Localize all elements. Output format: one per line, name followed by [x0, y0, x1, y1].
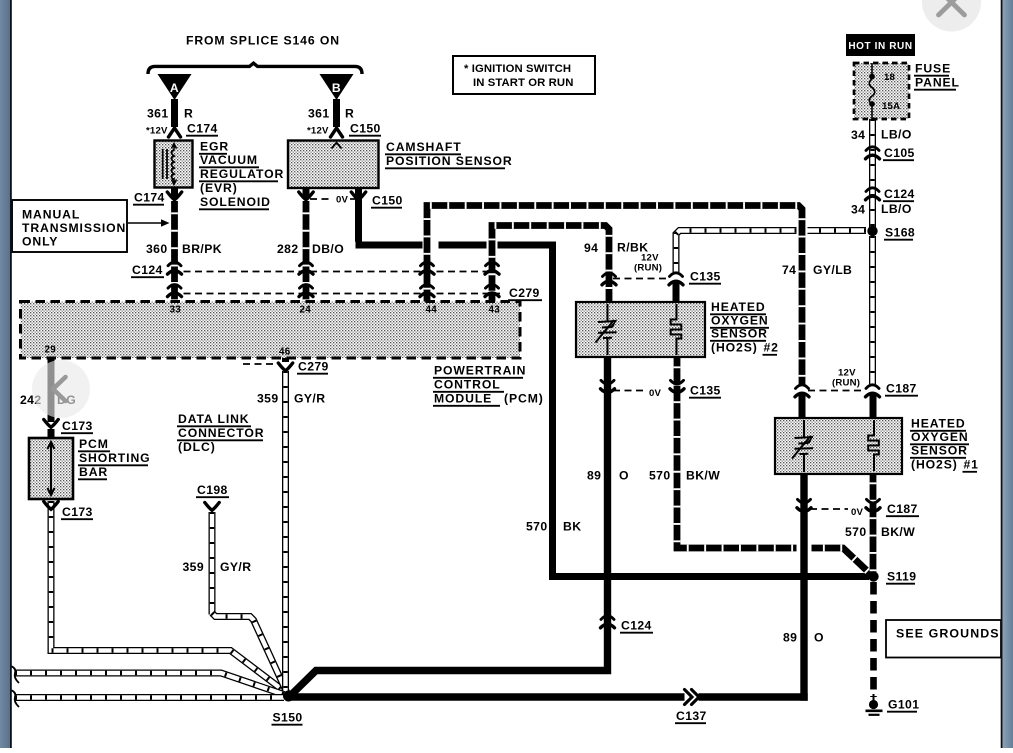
splice S119 — [868, 571, 878, 581]
HO2S2 heater symbol — [671, 304, 682, 355]
wire C150 connector line — [310, 198, 332, 200]
wire left wire lower to S150 — [15, 694, 284, 701]
svg-text:C174: C174 — [187, 122, 218, 136]
svg-text:570: 570 — [845, 525, 867, 539]
svg-text:MANUAL: MANUAL — [22, 208, 80, 222]
wire 34 LB/O fuse to C105 — [869, 119, 876, 228]
svg-text:C124: C124 — [132, 263, 163, 277]
svg-text:C124: C124 — [621, 619, 652, 633]
note box IGNITION SWITCH — [453, 56, 595, 94]
svg-text:(PCM): (PCM) — [504, 392, 544, 406]
svg-text:24: 24 — [300, 305, 312, 316]
header HOT IN RUN — [846, 34, 915, 56]
wire EVR bottom stub — [171, 185, 178, 199]
wire 89 O HO2S1 down — [800, 471, 807, 701]
svg-text:C174: C174 — [134, 191, 165, 205]
connector C198 — [205, 503, 219, 511]
svg-text:C279: C279 — [509, 286, 540, 300]
svg-text:(RUN): (RUN) — [634, 263, 662, 274]
svg-text:OXYGEN: OXYGEN — [911, 430, 969, 444]
connector C174 below EVR — [167, 192, 181, 200]
powertrain control module (PCM) box — [21, 302, 521, 359]
svg-text:POWERTRAIN: POWERTRAIN — [434, 364, 526, 378]
svg-text:R: R — [345, 107, 354, 121]
EGR vacuum regulator (EVR) solenoid box — [155, 141, 193, 188]
wire left wire upper to S150 — [15, 673, 284, 695]
connector C124 fuse column — [866, 188, 879, 192]
connector C150 left pin — [299, 192, 313, 200]
svg-text:GY/R: GY/R — [294, 392, 325, 406]
svg-text:BK/W: BK/W — [881, 525, 915, 539]
wire 282 DB/O camshaft to PCM pin 24 — [303, 201, 310, 303]
svg-text:C279: C279 — [298, 360, 329, 374]
back button — [32, 360, 90, 418]
wire C173 to shorting bar stub — [48, 429, 55, 440]
HO2S1 sensor element symbol — [792, 420, 813, 472]
wire 359 GY/R C279 to S150 — [282, 371, 289, 692]
svg-text:SENSOR: SENSOR — [711, 327, 768, 341]
svg-text:HEATED: HEATED — [911, 417, 966, 431]
svg-text:(HO2S): (HO2S) — [911, 458, 958, 472]
svg-text:C150: C150 — [350, 122, 381, 136]
connector connector pins at C279 line x=427 — [421, 285, 434, 289]
wire 570 BK/W HO2S2 to S119 seg2 — [812, 548, 871, 574]
svg-text:VACUUM: VACUUM — [200, 153, 258, 167]
connector C135 top left pin — [603, 273, 616, 277]
wire 570 BK horizontal seg1 — [356, 242, 423, 249]
wire C124 connector line — [172, 271, 497, 273]
svg-text:EGR: EGR — [200, 140, 229, 154]
svg-text:44: 44 — [426, 305, 438, 316]
svg-text:0V: 0V — [851, 507, 864, 518]
connector C135 bottom left pin — [601, 380, 614, 384]
svg-text:S150: S150 — [273, 711, 303, 725]
svg-text:HEATED: HEATED — [711, 300, 766, 314]
svg-text:GY/R: GY/R — [220, 560, 251, 574]
wire 242 DG PCM pin 29 to C173 — [48, 355, 55, 422]
svg-text:B: B — [332, 81, 341, 95]
svg-text:SENSOR: SENSOR — [911, 444, 968, 458]
wire 360 BR/PK EVR to PCM pin 33 — [171, 201, 178, 303]
svg-text:REGULATOR: REGULATOR — [200, 167, 284, 181]
wire 89 O HO2S2 to S150 — [291, 355, 608, 695]
svg-text:C150: C150 — [372, 194, 403, 208]
svg-text:570: 570 — [649, 469, 671, 483]
connector C173 below shorting bar — [44, 502, 58, 510]
wire 570 BK horizontal seg3 — [498, 242, 557, 249]
wire 361 R to camshaft sensor — [333, 99, 340, 127]
splice triangle A — [158, 74, 192, 100]
arrow to 360 BR/PK wire — [128, 222, 162, 224]
wire 74 GY/LB PCM pin 44 to HO2S1 — [427, 206, 802, 387]
connector C135 top right pin — [670, 273, 683, 277]
svg-text:SHORTING: SHORTING — [79, 451, 151, 465]
svg-text:18: 18 — [884, 72, 896, 83]
wire 89 O bottom horizontal seg2 — [289, 693, 685, 700]
svg-text:OXYGEN: OXYGEN — [711, 314, 769, 328]
svg-text:CAMSHAFT: CAMSHAFT — [386, 140, 462, 154]
EVR coil — [172, 150, 175, 180]
connector connector pins at C279 line x=492 — [486, 285, 499, 289]
svg-text:*12V: *12V — [146, 126, 168, 137]
heated oxygen sensor HO2S #1 box — [775, 418, 902, 474]
svg-text:282: 282 — [277, 242, 299, 256]
splice S168 — [867, 226, 877, 236]
connector C187 top right pin — [866, 385, 879, 389]
svg-text:ONLY: ONLY — [22, 235, 58, 249]
svg-text:33: 33 — [170, 305, 182, 316]
svg-text:IN START OR RUN: IN START OR RUN — [473, 77, 573, 89]
svg-text:89: 89 — [783, 631, 797, 645]
svg-text:PCM: PCM — [79, 437, 109, 451]
note box SEE GROUNDS — [886, 620, 1001, 658]
svg-text:CONTROL: CONTROL — [434, 378, 501, 392]
wire PCM pin 46 stub — [282, 355, 289, 362]
svg-text:570: 570 — [526, 520, 548, 534]
svg-text:0V: 0V — [336, 195, 349, 206]
wire 94 R/BK PCM pin 43 to HO2S2 — [492, 226, 609, 304]
svg-text:FROM SPLICE S146 ON: FROM SPLICE S146 ON — [186, 34, 340, 48]
svg-text:15A: 15A — [882, 101, 900, 112]
connector connector pins at C124 line x=174.5 — [168, 262, 181, 266]
connector C187 top left pin — [796, 385, 809, 389]
wire C279 connector line — [172, 293, 500, 295]
svg-text:74: 74 — [782, 263, 796, 277]
svg-text:(EVR): (EVR) — [200, 181, 238, 195]
svg-text:C135: C135 — [690, 270, 721, 284]
wire camshaft right pin 570 BK down — [355, 185, 362, 242]
svg-text:BK/W: BK/W — [686, 469, 720, 483]
splice bracket S146 — [148, 63, 362, 74]
svg-text:DB/O: DB/O — [312, 242, 344, 256]
svg-text:* IGNITION SWITCH: * IGNITION SWITCH — [464, 63, 571, 75]
connector C279 below PCM — [278, 363, 292, 371]
svg-text:89: 89 — [587, 469, 601, 483]
svg-text:BK: BK — [563, 520, 581, 534]
wire break squiggle lower — [11, 690, 20, 707]
svg-text:29: 29 — [45, 345, 57, 356]
camshaft position sensor box — [288, 141, 379, 189]
wire 359 GY/R DLC jog — [212, 613, 287, 693]
HO2S1 heater symbol — [868, 420, 879, 471]
svg-text:359: 359 — [183, 560, 205, 574]
wire 361 R to EVR — [171, 99, 178, 127]
svg-text:GY/LB: GY/LB — [813, 263, 852, 277]
svg-text:C173: C173 — [62, 419, 93, 433]
PCM shorting bar box — [29, 438, 73, 499]
fuse panel box — [854, 63, 909, 119]
wire 12V RUN stub into HO2S1 — [870, 393, 877, 419]
svg-text:S168: S168 — [885, 226, 915, 240]
heated oxygen sensor HO2S #2 box — [576, 302, 705, 357]
svg-text:O: O — [619, 469, 629, 483]
right blue border — [1001, 0, 1003, 748]
connector connector pins at C124 line x=492 — [486, 262, 499, 266]
svg-text:BAR: BAR — [79, 465, 108, 479]
wire 89 O bottom horizontal seg1 — [699, 693, 808, 700]
wire camshaft left pin stub — [303, 185, 310, 199]
svg-text:POSITION SENSOR: POSITION SENSOR — [386, 154, 513, 168]
connector connector pins at C124 line x=306 — [300, 262, 313, 266]
wire break squiggle upper — [11, 666, 20, 683]
svg-text:LB/O: LB/O — [881, 128, 912, 142]
svg-text:361: 361 — [308, 107, 330, 121]
svg-text:#2: #2 — [764, 341, 779, 355]
svg-text:C137: C137 — [676, 709, 707, 723]
svg-text:O: O — [814, 631, 824, 645]
connector C150 right pin — [351, 192, 365, 200]
wire S119 to G101 dashed — [870, 582, 877, 697]
svg-text:34: 34 — [851, 203, 865, 217]
connector C187 bottom right pin — [867, 499, 880, 503]
svg-text:360: 360 — [146, 242, 168, 256]
connector connector pins at C124 line x=427 — [421, 262, 434, 266]
wire C187 connector line top — [808, 390, 864, 392]
svg-text:C135: C135 — [690, 384, 721, 398]
svg-text:(DLC): (DLC) — [178, 440, 216, 454]
svg-text:S119: S119 — [887, 570, 916, 584]
svg-text:C198: C198 — [197, 483, 228, 497]
svg-text:94: 94 — [584, 241, 598, 255]
wire 359 GY/R DLC to S150 — [209, 512, 216, 615]
svg-text:(HO2S): (HO2S) — [711, 341, 758, 355]
splice triangle B — [320, 74, 354, 100]
svg-text:DATA LINK: DATA LINK — [178, 412, 250, 426]
wire 74 GY/LB stub into HO2S1 — [799, 393, 806, 419]
svg-text:0V: 0V — [649, 388, 662, 399]
wire 12V RUN stub into HO2S2 — [673, 281, 680, 303]
connector connector pins at C279 line x=174.5 — [168, 285, 181, 289]
svg-text:MODULE: MODULE — [434, 392, 492, 406]
svg-text:A: A — [170, 81, 179, 95]
svg-text:361: 361 — [147, 107, 169, 121]
svg-text:C173: C173 — [62, 505, 93, 519]
connector C137 — [685, 690, 700, 705]
wire 570 BK/W HO2S2 to S119 seg1 — [677, 355, 797, 548]
svg-text:43: 43 — [489, 305, 501, 316]
wire C135 connector line bottom — [613, 390, 646, 392]
svg-text:FUSE: FUSE — [915, 62, 951, 76]
close button — [922, 0, 981, 32]
HO2S2 sensor element symbol — [596, 304, 617, 355]
svg-text:*12V: *12V — [307, 126, 329, 137]
wire C135 connector line top — [613, 278, 668, 280]
svg-text:PANEL: PANEL — [915, 76, 960, 90]
svg-text:BR/PK: BR/PK — [182, 242, 222, 256]
svg-text:C105: C105 — [884, 146, 915, 160]
connector C187 bottom left pin — [798, 499, 811, 503]
wire 570 BK/W HO2S1 to S119 — [870, 471, 877, 572]
svg-text:C124: C124 — [884, 187, 915, 201]
wire C279 stub line left of connector — [243, 363, 277, 365]
connector connector pins at C279 line x=306 — [300, 285, 313, 289]
svg-text:SOLENOID: SOLENOID — [200, 195, 271, 209]
svg-text:CONNECTOR: CONNECTOR — [178, 426, 264, 440]
left blue border — [0, 0, 10, 748]
wire C150 connector line right — [350, 198, 356, 200]
connector C105 — [866, 147, 879, 151]
svg-text:#1: #1 — [964, 458, 979, 472]
svg-text:(RUN): (RUN) — [832, 378, 860, 389]
svg-text:HOT IN RUN: HOT IN RUN — [848, 41, 912, 52]
svg-text:34: 34 — [851, 128, 865, 142]
wire C187 connector line bottom — [810, 508, 848, 510]
svg-text:G101: G101 — [888, 698, 919, 712]
svg-text:LB/O: LB/O — [881, 202, 912, 216]
connector C173 above shorting bar — [44, 420, 58, 428]
wire 570 BK vertical and to S119 — [553, 242, 870, 577]
splice S150 — [283, 691, 294, 702]
wire 12V RUN S168 to C135 seg1 — [808, 227, 867, 234]
wire 12V RUN S168 to C187 — [869, 236, 876, 384]
svg-text:46: 46 — [279, 347, 291, 358]
connector C150 top — [331, 128, 343, 137]
wire 570 BK horizontal seg2 — [439, 242, 487, 249]
svg-text:SEE GROUNDS: SEE GROUNDS — [896, 627, 1000, 641]
ground G101 — [873, 694, 875, 701]
note box MANUAL TRANSMISSION ONLY — [12, 200, 127, 252]
fuse symbol 18 / 15A — [871, 63, 873, 75]
wire 12V RUN S168 to C135 seg2 — [676, 231, 797, 273]
svg-text:R: R — [184, 107, 193, 121]
svg-text:C187: C187 — [886, 382, 917, 396]
svg-text:359: 359 — [257, 392, 279, 406]
svg-text:TRANSMISSION: TRANSMISSION — [22, 221, 126, 235]
connector C135 bottom right pin — [671, 380, 684, 384]
connector C124 bottom on 89 O wire — [601, 616, 614, 620]
connector C174 top — [169, 128, 181, 137]
svg-text:C187: C187 — [887, 502, 918, 516]
wire 359 GY/R shorting bar to S150 — [51, 501, 286, 693]
